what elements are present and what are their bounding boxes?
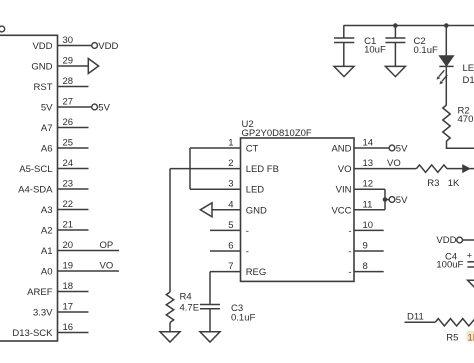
- svg-text:VDD: VDD: [98, 41, 118, 52]
- wire: R2 to edge: [447, 141, 474, 148]
- svg-text:7: 7: [228, 261, 233, 272]
- wire: C3 to ground: [209, 309, 211, 332]
- U1 pin 22 (A3): [41, 199, 89, 216]
- U2 pin 7 (REG): [210, 261, 266, 278]
- svg-text:6: 6: [228, 241, 233, 252]
- wire: 5V rail (top): [344, 25, 474, 27]
- svg-text:R3: R3: [427, 178, 439, 189]
- svg-text:5: 5: [228, 220, 233, 231]
- wire: D11 net to R5: [405, 321, 436, 323]
- svg-text:1: 1: [228, 138, 233, 149]
- svg-text:AREF: AREF: [27, 287, 53, 298]
- svg-text:4: 4: [228, 199, 233, 210]
- svg-text:-: -: [246, 226, 249, 237]
- input arrow (U2 pin 4 GND): [200, 203, 212, 217]
- svg-text:10uF: 10uF: [364, 44, 386, 55]
- svg-text:REG: REG: [246, 267, 267, 278]
- U2 pin 8 (-): [348, 261, 383, 278]
- U2 pin 3 (LED): [190, 179, 264, 196]
- svg-text:A1: A1: [41, 246, 53, 257]
- svg-text:-: -: [348, 247, 351, 258]
- U1 pin 20 (A1): [41, 240, 119, 257]
- svg-text:17: 17: [63, 302, 74, 313]
- svg-text:A5-SCL: A5-SCL: [19, 164, 52, 175]
- ground (C2): [385, 66, 405, 76]
- svg-text:470E: 470E: [458, 114, 474, 125]
- U2 pin 6 (-): [210, 241, 249, 258]
- svg-text:VCC: VCC: [331, 205, 351, 216]
- U1 pin 18 (AREF): [27, 281, 88, 298]
- svg-text:29: 29: [63, 56, 74, 67]
- svg-text:1K: 1K: [468, 332, 474, 343]
- U1 pin 27 (5V): [41, 97, 92, 114]
- svg-text:11: 11: [363, 199, 373, 210]
- wire: U2 pin1 to pin3 (CT-LED tie): [189, 148, 191, 189]
- ground (C1): [334, 66, 354, 76]
- svg-text:14: 14: [363, 138, 374, 149]
- svg-text:D12: D12: [463, 75, 474, 86]
- svg-text:16: 16: [63, 322, 74, 333]
- svg-text:A7: A7: [41, 123, 53, 134]
- svg-text:5V: 5V: [41, 103, 53, 114]
- U2 pin 9 (-): [348, 241, 383, 258]
- junction (rail to C2): [393, 23, 398, 28]
- U1 pin 19 (A0): [41, 261, 119, 278]
- svg-text:8: 8: [363, 261, 368, 272]
- svg-text:-: -: [348, 267, 351, 278]
- U2 pin 13 (VO): [338, 158, 417, 175]
- svg-text:GND: GND: [31, 62, 52, 73]
- svg-text:19: 19: [63, 261, 74, 272]
- capacitor C4 (polarized): [467, 250, 474, 267]
- svg-text:A2: A2: [41, 226, 53, 237]
- power VDD terminal (pin 30): [92, 41, 119, 52]
- U1 pin 29 (GND): [31, 56, 88, 73]
- svg-text:A4-SDA: A4-SDA: [18, 185, 53, 196]
- svg-text:13: 13: [363, 158, 374, 169]
- svg-text:+: +: [467, 250, 472, 260]
- svg-text:5V: 5V: [98, 102, 110, 113]
- svg-text:LED: LED: [463, 63, 474, 74]
- off-page arrow (VO net): [463, 165, 470, 172]
- svg-text:A3: A3: [41, 205, 53, 216]
- wire: R4 to ground: [169, 323, 171, 332]
- U2 pin 2 (LED FB): [170, 158, 279, 175]
- svg-text:GP2Y0D810Z0F: GP2Y0D810Z0F: [242, 128, 312, 139]
- wire: U2 pin2 down to R4: [169, 169, 171, 292]
- svg-text:23: 23: [63, 179, 74, 190]
- svg-text:5V: 5V: [396, 195, 408, 206]
- svg-text:R5: R5: [446, 332, 458, 343]
- IC U1 (left microcontroller, partially visible): [0, 35, 58, 341]
- svg-text:VDD: VDD: [436, 235, 456, 246]
- resistor R3: [416, 165, 425, 172]
- svg-text:26: 26: [63, 117, 74, 128]
- U1 pin 28 (RST): [34, 76, 89, 93]
- U2 pin 10 (-): [348, 220, 383, 237]
- svg-text:25: 25: [63, 138, 74, 149]
- svg-text:-: -: [348, 226, 351, 237]
- node (cut-off terminal top-left): [0, 26, 5, 32]
- svg-text:VO: VO: [387, 158, 401, 169]
- svg-text:3: 3: [228, 179, 233, 190]
- svg-text:4.7E: 4.7E: [180, 303, 200, 314]
- U2 pin 4 (GND): [212, 199, 267, 216]
- U1 pin 16 (D13-SCK): [12, 322, 88, 339]
- svg-text:27: 27: [63, 97, 74, 108]
- U2 pin 14 (AND): [331, 138, 389, 155]
- svg-text:12: 12: [363, 179, 374, 190]
- svg-text:LED: LED: [246, 185, 265, 196]
- wire: U2 pin7 REG down to C3: [209, 272, 211, 305]
- resistor R5: [435, 319, 474, 326]
- svg-text:R4: R4: [180, 292, 192, 303]
- junction (pins 12-11 to 5V): [383, 197, 388, 202]
- svg-text:3.3V: 3.3V: [33, 308, 53, 319]
- svg-text:22: 22: [63, 199, 74, 210]
- svg-text:28: 28: [63, 76, 74, 87]
- svg-text:1K: 1K: [448, 178, 460, 189]
- wire: U2 pins 12-11 tie: [384, 189, 386, 210]
- svg-text:OP: OP: [100, 240, 114, 251]
- U1 pin 23 (A4-SDA): [18, 179, 88, 196]
- svg-text:9: 9: [363, 241, 368, 252]
- U1 pin 24 (A5-SCL): [19, 158, 88, 175]
- U2 pin 5 (-): [210, 220, 249, 237]
- svg-text:A6: A6: [41, 144, 53, 155]
- power 5V terminal (U2 pins 11/12): [389, 195, 408, 206]
- svg-text:RST: RST: [34, 82, 53, 93]
- svg-text:24: 24: [63, 158, 74, 169]
- power 5V terminal (U2 pin 14): [389, 143, 408, 154]
- resistor R4: [166, 292, 173, 322]
- off-page arrow (pin 29 GND): [88, 59, 98, 74]
- svg-text:AND: AND: [331, 144, 351, 155]
- op-amp/sensor U2 GP2Y0D810Z0F: [241, 119, 355, 281]
- svg-text:2: 2: [228, 158, 233, 169]
- resistor R2: [443, 105, 450, 141]
- svg-text:VO: VO: [100, 261, 114, 272]
- svg-text:A0: A0: [41, 267, 53, 278]
- svg-text:10: 10: [363, 220, 374, 231]
- U2 pin 1 (CT): [190, 138, 259, 155]
- wire: VDD to C4: [463, 239, 474, 241]
- ground (R4): [160, 332, 180, 342]
- power 5V terminal (pin 27): [92, 102, 111, 113]
- svg-text:VIN: VIN: [336, 185, 352, 196]
- wire: junction to 5V terminal: [385, 199, 389, 201]
- svg-text:-: -: [246, 247, 249, 258]
- svg-text:CT: CT: [246, 144, 259, 155]
- svg-text:100uF: 100uF: [436, 260, 463, 271]
- svg-text:LED FB: LED FB: [246, 164, 279, 175]
- ground (C3): [200, 332, 220, 342]
- capacitor C3: [200, 305, 220, 309]
- svg-text:21: 21: [63, 220, 74, 231]
- U1 pin 25 (A6): [41, 138, 89, 155]
- svg-text:VO: VO: [338, 164, 352, 175]
- U1 pin 17 (3.3V): [33, 302, 89, 319]
- U1 pin 21 (A2): [41, 220, 89, 237]
- svg-text:20: 20: [63, 240, 74, 251]
- svg-text:GND: GND: [246, 205, 267, 216]
- ground (C4, clipped at edge): [468, 280, 474, 290]
- wire: arrow to edge: [470, 168, 474, 170]
- svg-text:30: 30: [63, 35, 74, 46]
- U1 pin 26 (A7): [41, 117, 89, 134]
- U2 pin 11 (VCC): [331, 199, 385, 216]
- svg-text:0.1uF: 0.1uF: [231, 313, 255, 324]
- capacitor C1: [334, 26, 354, 67]
- wire: R3 to arrow: [447, 168, 463, 170]
- svg-text:5V: 5V: [396, 143, 408, 154]
- power VDD terminal (bottom right): [436, 235, 462, 246]
- svg-text:0.1uF: 0.1uF: [414, 45, 438, 56]
- svg-text:18: 18: [63, 281, 74, 292]
- capacitor C2: [385, 26, 405, 67]
- junction (rail to LED): [444, 23, 449, 28]
- U2 pin 12 (VIN): [336, 179, 385, 196]
- svg-text:D11: D11: [407, 311, 424, 322]
- LED D1: [436, 26, 453, 106]
- svg-text:VDD: VDD: [32, 41, 52, 52]
- svg-text:D13-SCK: D13-SCK: [12, 328, 53, 339]
- U1 pin 30 (VDD): [32, 35, 91, 52]
- R5 value 1K (highlighted): [467, 331, 474, 343]
